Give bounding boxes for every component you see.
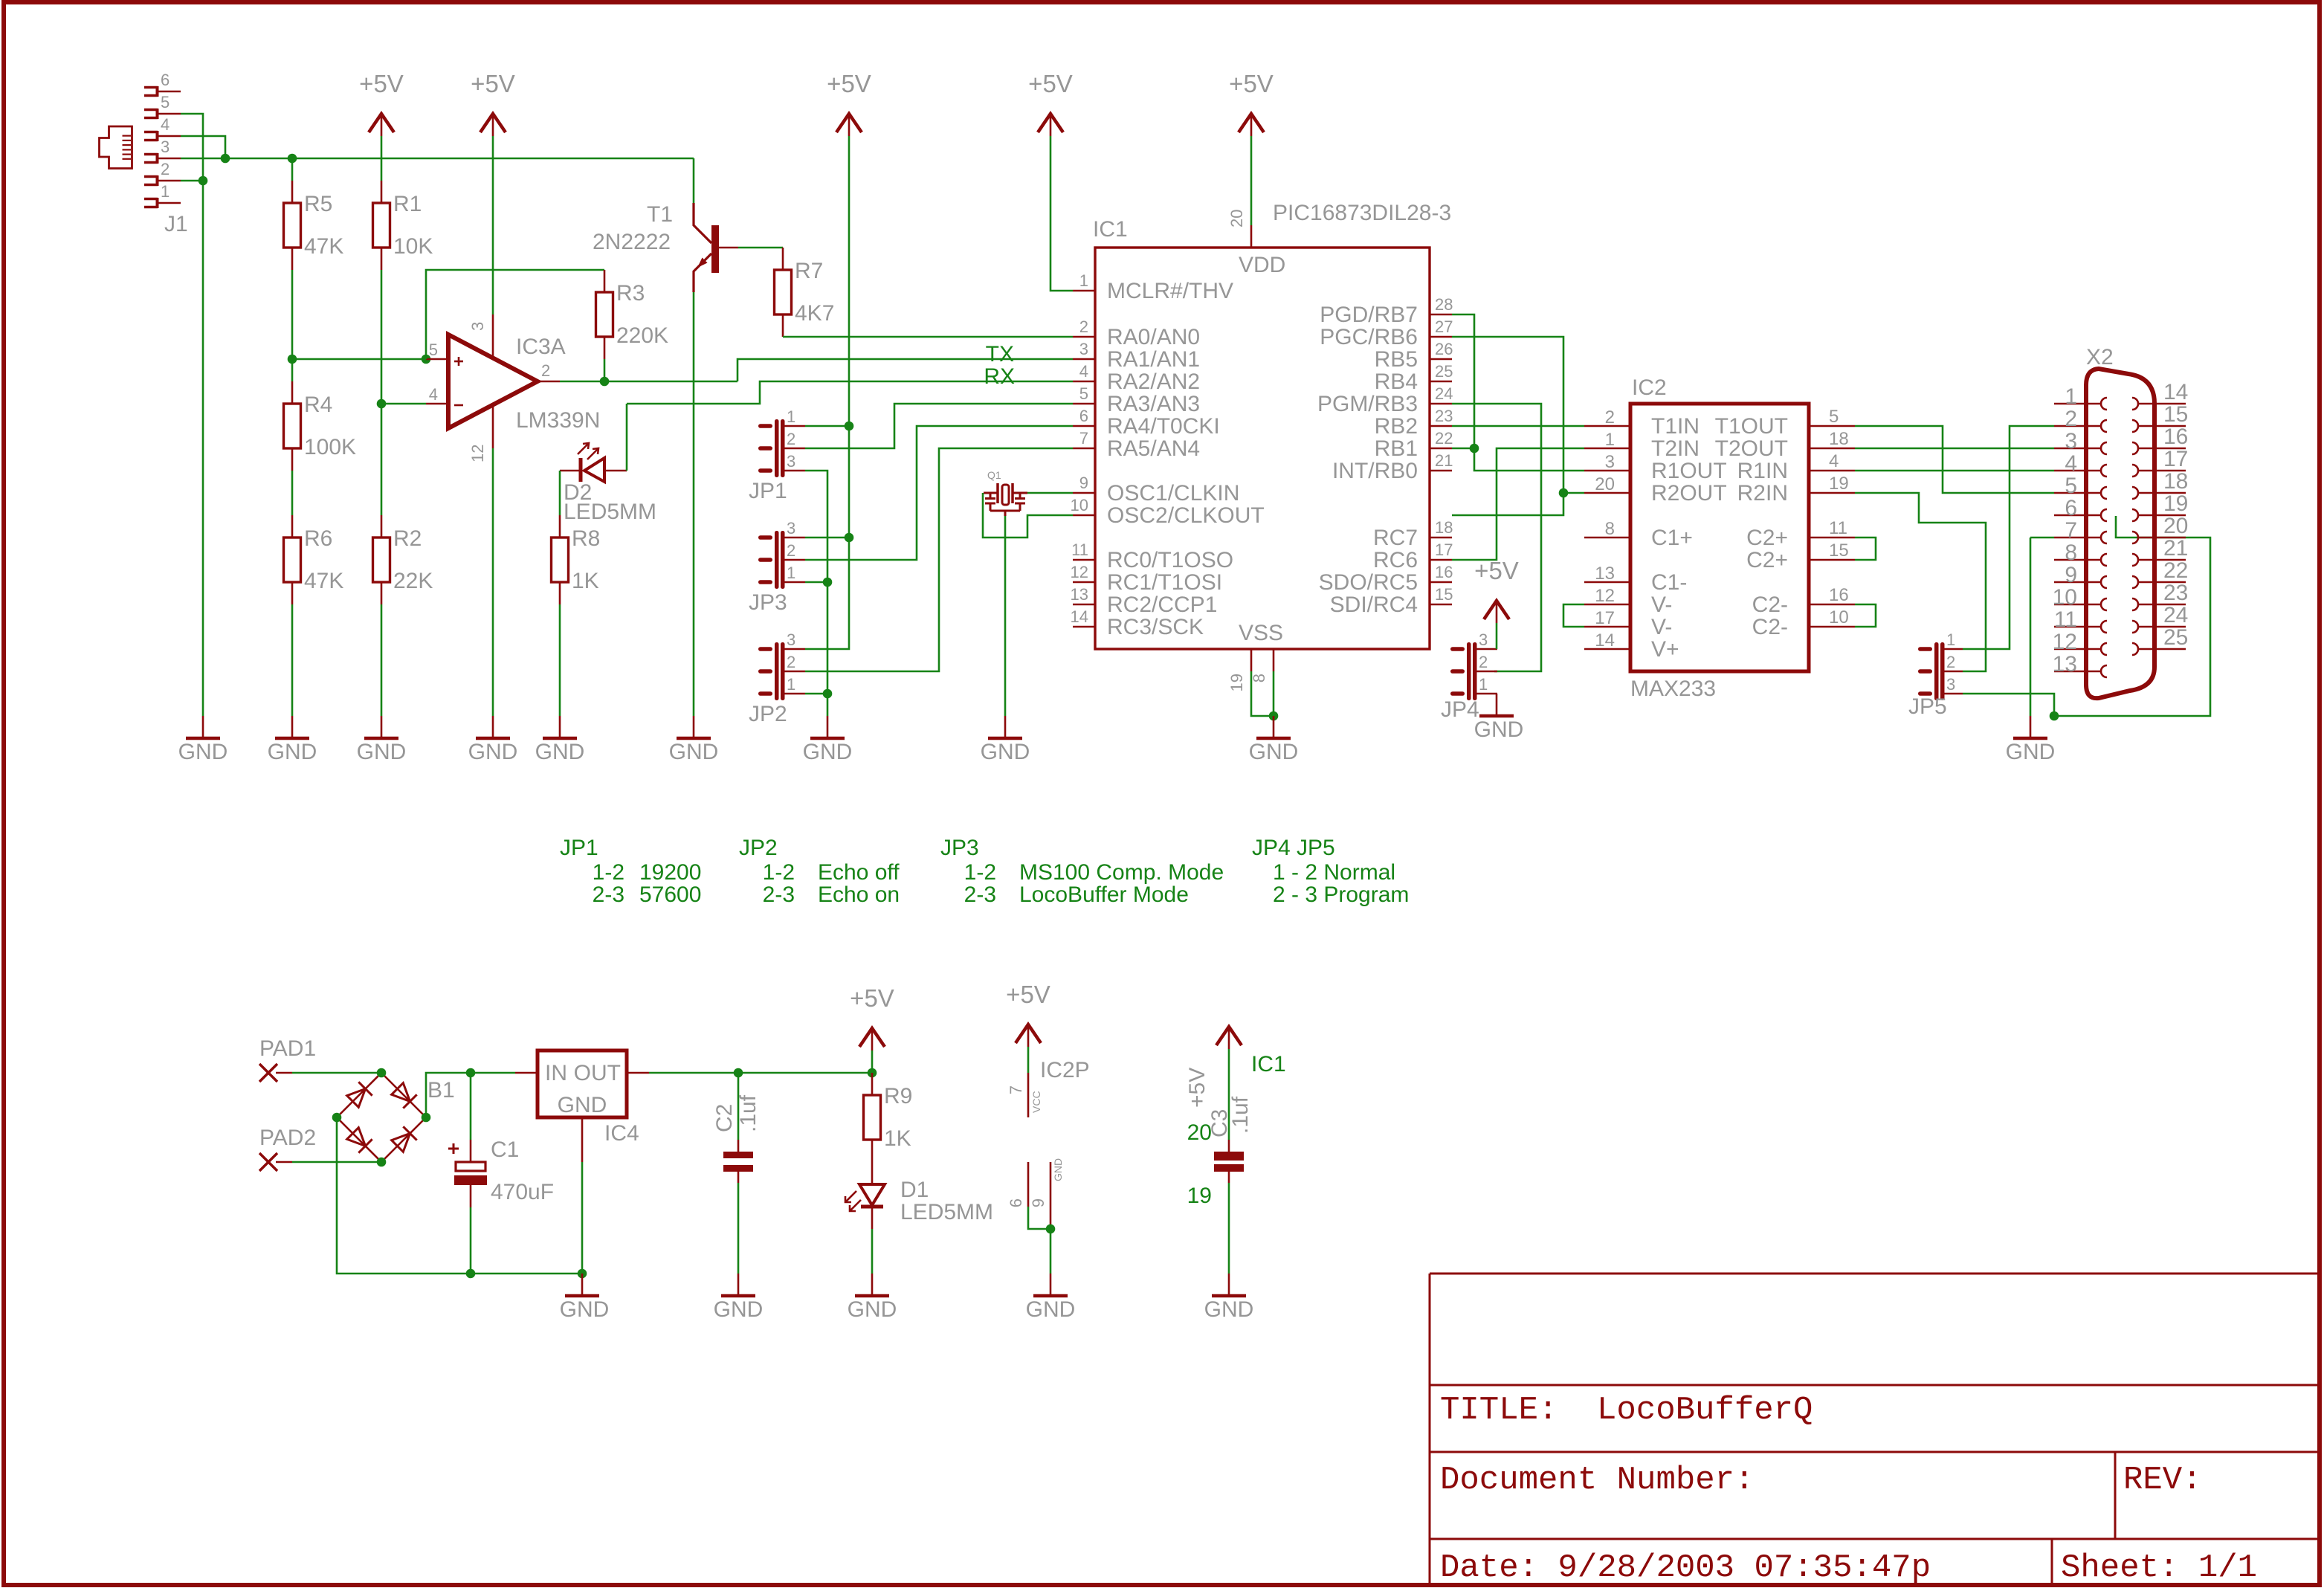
- ground symbol for J1 pin2 net: [202, 716, 204, 738]
- svg-text:1: 1: [1946, 630, 1955, 649]
- X2 pin 24: [2138, 626, 2186, 628]
- svg-text:2: 2: [1479, 653, 1488, 671]
- IC2 pin 11 C2+: [1809, 537, 1855, 539]
- J1 pin 4: [144, 131, 158, 134]
- X2 pin 14: [2138, 403, 2186, 405]
- wire JP3 pin2 to IC1 RA4: [805, 426, 1073, 560]
- svg-text:RA5/AN4: RA5/AN4: [1107, 436, 1200, 461]
- svg-text:GND: GND: [669, 740, 719, 764]
- svg-text:+5V: +5V: [1006, 981, 1050, 1008]
- resistor R9 1K: [864, 1095, 881, 1140]
- svg-text:28: 28: [1435, 295, 1453, 314]
- wire main LocoNet line J1 pin3 east: [181, 158, 694, 160]
- svg-text:2-3: 2-3: [593, 882, 624, 907]
- junction bridge AC2: [377, 1158, 387, 1167]
- svg-text:+5V: +5V: [850, 984, 894, 1012]
- svg-text:11: 11: [1829, 518, 1847, 538]
- wire crystal to OSC1: [1027, 492, 1073, 494]
- capacitor C3 .1uf: [1214, 1152, 1244, 1161]
- svg-text:+5V: +5V: [1474, 557, 1519, 584]
- IC1 pin 5 RA3/AN3: [1073, 403, 1095, 405]
- svg-text:8: 8: [1250, 674, 1268, 682]
- svg-text:25: 25: [1435, 362, 1453, 381]
- IC1 pin 13 RC2/CCP1: [1073, 604, 1095, 606]
- wire R3 bottom to output node: [604, 359, 606, 381]
- svg-text:+5V: +5V: [1185, 1068, 1210, 1108]
- svg-text:OUT: OUT: [574, 1061, 621, 1085]
- svg-text:24: 24: [2163, 603, 2188, 627]
- wire T2OUT to X2 pin3: [1855, 448, 2054, 450]
- X2 pin 8: [2054, 559, 2101, 561]
- IC3A pin 2 output: [538, 381, 560, 383]
- svg-text:21: 21: [2163, 536, 2188, 561]
- svg-text:GND: GND: [558, 1093, 607, 1117]
- svg-text:R1IN: R1IN: [1737, 459, 1788, 483]
- IC2P GND pin 6: [1027, 1162, 1030, 1207]
- svg-text:13: 13: [1071, 585, 1088, 604]
- X2 pin 2: [2054, 425, 2101, 427]
- svg-text:C2+: C2+: [1746, 526, 1788, 550]
- svg-text:J1: J1: [164, 212, 188, 236]
- wire R2OUT node to RC7: [1452, 493, 1563, 515]
- svg-text:PGM/RB3: PGM/RB3: [1317, 392, 1418, 416]
- svg-text:3: 3: [1479, 630, 1488, 649]
- svg-text:12: 12: [1071, 563, 1088, 581]
- wire PAD2 to bridge bottom: [292, 1161, 381, 1163]
- IC1 pin 7 RA5/AN4: [1073, 448, 1095, 450]
- svg-text:RA4/T0CKI: RA4/T0CKI: [1107, 414, 1220, 439]
- svg-text:JP2: JP2: [739, 836, 778, 860]
- svg-text:TITLE:: TITLE:: [1440, 1392, 1558, 1429]
- svg-text:26: 26: [1435, 340, 1453, 358]
- wire RB2 to T1IN: [1452, 425, 1584, 427]
- junction R9: [868, 1068, 877, 1078]
- svg-text:SDI/RC4: SDI/RC4: [1330, 593, 1418, 617]
- ground symbol below C3: [1228, 1274, 1230, 1296]
- wire +5V to R1 top: [381, 136, 383, 181]
- svg-text:RA0/AN0: RA0/AN0: [1107, 325, 1200, 349]
- svg-text:5: 5: [429, 340, 438, 359]
- svg-text:11: 11: [2054, 607, 2077, 632]
- svg-text:C2-: C2-: [1752, 615, 1788, 639]
- LED D1 LED5MM: [871, 1162, 874, 1184]
- svg-text:R2OUT: R2OUT: [1651, 481, 1727, 506]
- svg-text:GND: GND: [357, 740, 407, 764]
- junction J1 pin5/pin2: [198, 176, 208, 186]
- svg-text:VCC: VCC: [1030, 1091, 1042, 1113]
- X2 pin 21: [2138, 559, 2186, 561]
- wire JP2 pin1: [805, 693, 827, 695]
- wire VSS pin19 to ground: [1251, 671, 1274, 716]
- wire to C2: [737, 1073, 740, 1140]
- svg-text:GND: GND: [560, 1297, 610, 1322]
- ground symbol below Q1: [1004, 716, 1007, 738]
- IC2 pin 1 T2IN: [1584, 448, 1630, 450]
- X2 pin 23: [2138, 604, 2186, 606]
- X2 pin 11: [2054, 626, 2101, 628]
- connector X2 DB25 outline: [2086, 369, 2154, 698]
- junction +input: [422, 355, 431, 364]
- svg-text:MCLR#/THV: MCLR#/THV: [1107, 279, 1233, 303]
- junction JP2 pin1 on select-gnd column: [823, 689, 833, 699]
- wire IC2P gnd pins: [1028, 1207, 1050, 1229]
- svg-text:10: 10: [2053, 585, 2077, 610]
- IC2 pin 15 C2+: [1809, 559, 1855, 561]
- svg-text:47K: 47K: [304, 569, 343, 593]
- svg-text:RC7: RC7: [1373, 526, 1418, 550]
- svg-text:GND: GND: [1249, 740, 1299, 764]
- wire main net to R5: [291, 158, 294, 181]
- svg-text:470uF: 470uF: [491, 1180, 554, 1204]
- IC2P GND pin 9: [1050, 1162, 1052, 1229]
- wire R2 to ground: [381, 604, 383, 716]
- svg-text:18: 18: [2163, 469, 2188, 494]
- IC1 pin 18 RC7: [1430, 537, 1452, 539]
- svg-text:IN: IN: [545, 1061, 567, 1085]
- IC3A pin 3 V+: [492, 314, 494, 358]
- resistor R4 100K: [284, 404, 301, 448]
- IC1 pin 17 RC6: [1430, 559, 1452, 561]
- ground symbol below jumper select column: [827, 716, 829, 738]
- IC1 pin 8 VSS: [1273, 649, 1275, 671]
- svg-text:Echo on: Echo on: [818, 882, 900, 907]
- wire IC4 GND to rail: [581, 1162, 584, 1274]
- svg-text:X2: X2: [2086, 345, 2114, 369]
- svg-text:2: 2: [1079, 317, 1088, 336]
- IC2 pin 18 T2OUT: [1809, 448, 1855, 450]
- +5V supply symbol above R1: [369, 114, 394, 132]
- svg-text:GND: GND: [2006, 740, 2056, 764]
- IC1 pin 28 PGD/RB7: [1430, 314, 1452, 316]
- svg-text:20: 20: [2163, 514, 2188, 538]
- svg-text:LED5MM: LED5MM: [900, 1200, 993, 1224]
- resistor R6 47K: [284, 538, 301, 582]
- T1 emitter lead: [694, 254, 711, 292]
- svg-text:+5V: +5V: [1028, 70, 1073, 97]
- wire +5V to IC3A V+ pin3: [492, 136, 494, 314]
- IC IC2 MAX233 body: [1630, 404, 1809, 671]
- svg-text:IC2P: IC2P: [1040, 1058, 1090, 1082]
- svg-text:4: 4: [2065, 451, 2077, 476]
- junction J1 pin4 / main net: [221, 154, 230, 164]
- svg-text:MS100 Comp. Mode: MS100 Comp. Mode: [1019, 860, 1224, 885]
- svg-text:GND: GND: [1026, 1297, 1076, 1322]
- resistor R7 4K7: [775, 270, 792, 314]
- svg-text:10K: 10K: [393, 234, 433, 259]
- wire +5V to IC1 MCLR pin1: [1050, 136, 1073, 291]
- wire X2 pin7 ground column: [2030, 538, 2032, 716]
- svg-text:RC6: RC6: [1373, 548, 1418, 572]
- svg-text:V+: V+: [1651, 637, 1679, 662]
- title block frame: [1430, 1274, 2318, 1584]
- svg-text:1-2: 1-2: [964, 860, 996, 885]
- svg-text:6: 6: [1007, 1198, 1025, 1207]
- svg-text:16: 16: [1435, 563, 1453, 581]
- wire bridge minus to ground rail: [337, 1117, 582, 1274]
- svg-text:T1: T1: [647, 202, 673, 227]
- svg-text:PGC/RB6: PGC/RB6: [1320, 325, 1418, 349]
- svg-text:2: 2: [161, 160, 170, 178]
- wire D1 to ground: [871, 1229, 874, 1274]
- svg-text:GND: GND: [1052, 1158, 1064, 1181]
- svg-text:JP5: JP5: [1908, 694, 1947, 719]
- IC1 pin 24 PGM/RB3: [1430, 403, 1452, 405]
- connector J1 RJ12 jack symbol: [100, 126, 132, 169]
- svg-text:27: 27: [1435, 317, 1453, 336]
- svg-text:RC1/T1OSI: RC1/T1OSI: [1107, 570, 1222, 595]
- svg-text:PAD1: PAD1: [259, 1036, 316, 1061]
- svg-text:RC2/CCP1: RC2/CCP1: [1107, 593, 1217, 617]
- +5V supply symbol above JP4: [1484, 601, 1509, 619]
- svg-text:RA3/AN3: RA3/AN3: [1107, 392, 1200, 416]
- wire IC4 OUT +5V rail: [649, 1072, 872, 1074]
- wire JP5 pin3 to X2 pin6: [1963, 516, 2210, 716]
- IC1 pin 1 MCLR#/THV: [1073, 290, 1095, 292]
- J1 pin 1: [144, 198, 158, 201]
- X2 pin 19: [2138, 514, 2186, 517]
- ground symbol below R6: [291, 716, 294, 738]
- svg-text:RB5: RB5: [1375, 347, 1418, 372]
- X2 pin 17: [2138, 470, 2186, 472]
- junction R1/R2/IC3A -in: [377, 399, 387, 409]
- junction C1 top: [466, 1068, 476, 1078]
- svg-text:GND: GND: [714, 1297, 764, 1322]
- svg-text:2: 2: [541, 361, 550, 380]
- svg-text:7: 7: [2065, 518, 2077, 543]
- +5V supply symbol above IC3A: [480, 114, 506, 132]
- svg-text:14: 14: [1071, 607, 1088, 626]
- wire X2 pin7 ground: [2030, 537, 2054, 539]
- X2 pin 25: [2138, 648, 2186, 651]
- IC1 pin 6 RA4/T0CKI: [1073, 425, 1095, 427]
- IC2 pin 10 C2-: [1809, 626, 1855, 628]
- svg-text:9: 9: [2065, 563, 2077, 587]
- svg-text:PIC16873DIL28-3: PIC16873DIL28-3: [1273, 201, 1451, 225]
- junction JP5 pin3 net: [2050, 711, 2059, 721]
- svg-text:GND: GND: [981, 740, 1030, 764]
- svg-text:T2OUT: T2OUT: [1715, 436, 1788, 461]
- ground symbol below IC1 VSS: [1273, 716, 1275, 738]
- svg-text:PGD/RB7: PGD/RB7: [1320, 303, 1418, 327]
- svg-text:2 - 3 Program: 2 - 3 Program: [1273, 882, 1409, 907]
- svg-text:R2IN: R2IN: [1737, 481, 1788, 506]
- junction IC4 GND on ground rail: [578, 1269, 587, 1279]
- jumper header JP1: [775, 419, 779, 477]
- wire main net down to T1 collector: [693, 158, 695, 203]
- svg-text:Q1: Q1: [987, 469, 1001, 481]
- wire to +input: [292, 358, 426, 361]
- junction bridge plus: [422, 1113, 431, 1123]
- svg-text:IC1: IC1: [1251, 1052, 1286, 1077]
- svg-text:JP2: JP2: [749, 702, 787, 726]
- svg-text:7: 7: [1079, 429, 1088, 448]
- svg-text:1K: 1K: [884, 1126, 911, 1151]
- svg-text:Document Number:: Document Number:: [1440, 1462, 1754, 1499]
- wire R4 to R6: [291, 471, 294, 515]
- IC1 pin 12 RC1/T1OSI: [1073, 581, 1095, 584]
- svg-text:C1: C1: [491, 1137, 519, 1162]
- svg-text:3: 3: [1946, 675, 1955, 694]
- svg-text:JP3: JP3: [749, 590, 787, 615]
- svg-text:+5V: +5V: [827, 70, 871, 97]
- +5V supply symbol above C3: [1216, 1027, 1242, 1045]
- svg-text:R1: R1: [393, 192, 422, 216]
- svg-text:.1uf: .1uf: [736, 1094, 761, 1132]
- junction output / R3: [600, 377, 610, 387]
- wire D2 anode up to RX net: [626, 404, 628, 471]
- svg-text:19200: 19200: [639, 860, 701, 885]
- IC2 pin 5 T1OUT: [1809, 425, 1855, 427]
- wire JP5 pin1 to X2 pin2: [1963, 426, 2054, 649]
- svg-text:LM339N: LM339N: [516, 408, 600, 433]
- svg-text:GND: GND: [1204, 1297, 1254, 1322]
- svg-text:LocoBufferQ: LocoBufferQ: [1597, 1392, 1813, 1429]
- svg-text:4K7: 4K7: [795, 301, 834, 326]
- svg-text:5: 5: [1829, 407, 1839, 427]
- svg-text:GND: GND: [468, 740, 518, 764]
- svg-text:C1-: C1-: [1651, 570, 1687, 595]
- svg-text:4: 4: [1079, 362, 1088, 381]
- IC U1 PIC16873 body: [1095, 248, 1430, 649]
- svg-text:VDD: VDD: [1239, 253, 1285, 277]
- svg-text:IC3A: IC3A: [516, 335, 566, 359]
- svg-text:VSS: VSS: [1239, 621, 1283, 645]
- wire R1 to R2 threshold node: [381, 270, 383, 515]
- wire RX net to IC1 RA2: [627, 381, 1073, 404]
- svg-text:RB1: RB1: [1375, 436, 1418, 461]
- svg-text:V-: V-: [1651, 615, 1672, 639]
- X2 pin 7: [2054, 537, 2101, 539]
- +5V supply symbol above JP1 column: [836, 114, 862, 132]
- jumper configuration legend: [560, 836, 1409, 907]
- resistor R3 220K: [596, 292, 613, 337]
- IC4 GND pin: [581, 1117, 584, 1162]
- svg-text:2: 2: [787, 541, 795, 560]
- wire J1 pin4 down to main net: [181, 136, 225, 158]
- svg-text:2-3: 2-3: [964, 882, 996, 907]
- X2 pin 13: [2054, 671, 2101, 673]
- wire T1 base to R7: [738, 247, 783, 249]
- svg-text:22: 22: [1435, 429, 1453, 448]
- svg-text:6: 6: [161, 71, 170, 89]
- wire R5 to R4: [291, 270, 294, 381]
- wire +5V to IC2P VCC: [1027, 1047, 1030, 1073]
- svg-text:1: 1: [161, 182, 170, 201]
- wire IC2P to ground: [1050, 1229, 1052, 1274]
- svg-text:19: 19: [2163, 491, 2188, 516]
- pad PAD2: [259, 1153, 277, 1171]
- bridge rectifier B1: [337, 1073, 381, 1117]
- wire RB1 stub to column: [1452, 448, 1474, 450]
- svg-text:11: 11: [1071, 540, 1088, 559]
- svg-text:RX: RX: [984, 364, 1015, 389]
- svg-text:GND: GND: [178, 740, 228, 764]
- svg-text:R5: R5: [304, 192, 332, 216]
- wire +5V to C3: [1228, 1049, 1230, 1140]
- svg-text:14: 14: [1595, 630, 1615, 651]
- wire +5V column to JP1-1 JP3-3 JP2-3: [805, 136, 849, 649]
- IC4 voltage regulator: [538, 1050, 627, 1117]
- svg-text:RA1/AN1: RA1/AN1: [1107, 347, 1200, 372]
- IC2 pin 19 R2IN: [1809, 492, 1855, 494]
- X2 pin 4: [2054, 470, 2101, 472]
- wire into R2OUT: [1563, 492, 1584, 494]
- wire RB6 down to R2OUT: [1452, 337, 1563, 493]
- junction IC2P gnd pins: [1046, 1224, 1056, 1234]
- svg-text:1: 1: [1079, 271, 1088, 290]
- svg-text:V-: V-: [1651, 593, 1672, 617]
- svg-text:22: 22: [2163, 558, 2188, 583]
- svg-text:R8: R8: [572, 526, 600, 551]
- junction R5/R4/IC3A +in: [288, 355, 297, 364]
- svg-text:24: 24: [1435, 384, 1453, 403]
- X2 pin 22: [2138, 581, 2186, 584]
- svg-text:12: 12: [1595, 586, 1615, 606]
- svg-text:RC0/T1OSO: RC0/T1OSO: [1107, 548, 1233, 572]
- svg-text:12: 12: [2053, 630, 2077, 654]
- svg-text:.1uf: .1uf: [1228, 1096, 1253, 1134]
- IC2 pin 4 R1IN: [1809, 470, 1855, 472]
- svg-text:4: 4: [161, 115, 170, 134]
- svg-text:R7: R7: [795, 259, 823, 283]
- svg-text:15: 15: [1829, 540, 1849, 561]
- wire J1 pin2: [181, 180, 203, 182]
- +5V supply symbol above IC2P: [1016, 1024, 1041, 1043]
- junction JP3 pin3 on +5V column: [845, 533, 854, 543]
- svg-text:R3: R3: [616, 281, 645, 306]
- wire JP1 pin2 to IC1 RA3: [805, 404, 1073, 448]
- svg-text:2-3: 2-3: [763, 882, 795, 907]
- svg-text:GND: GND: [1474, 717, 1524, 742]
- ground symbol below C2: [737, 1274, 740, 1296]
- svg-text:RB2: RB2: [1375, 414, 1418, 439]
- svg-text:RB4: RB4: [1375, 369, 1418, 394]
- svg-text:19: 19: [1227, 674, 1246, 691]
- wire +5V to IC1 VDD pin20: [1250, 136, 1253, 225]
- svg-text:3: 3: [1605, 452, 1615, 472]
- svg-text:RA2/AN2: RA2/AN2: [1107, 369, 1200, 394]
- svg-text:57600: 57600: [639, 882, 701, 907]
- wire JP3 pin1: [805, 581, 827, 584]
- wire PAD1 to bridge top: [292, 1072, 381, 1074]
- IC2 pin 17 V-: [1584, 626, 1630, 628]
- svg-text:220K: 220K: [616, 323, 668, 348]
- wire TX net to IC1 RA1: [737, 359, 1073, 381]
- transistor T1 2N2222 NPN: [711, 225, 719, 273]
- IC1 pin 4 RA2/AN2: [1073, 381, 1095, 383]
- wire JP1 pin3 select-gnd column: [805, 471, 827, 716]
- wire R6 to ground: [291, 604, 294, 716]
- resistor R5 47K: [284, 203, 301, 248]
- jumper header JP3: [775, 531, 779, 589]
- svg-text:C1+: C1+: [1651, 526, 1693, 550]
- svg-text:7: 7: [1007, 1085, 1025, 1094]
- wire PGM/RB3 to JP4 pin2: [1452, 404, 1541, 671]
- svg-text:1K: 1K: [572, 569, 599, 593]
- junction C1 on ground rail: [466, 1269, 476, 1279]
- svg-text:17: 17: [2163, 447, 2188, 471]
- svg-text:JP1: JP1: [560, 836, 598, 860]
- junction VSS pins: [1269, 711, 1279, 721]
- IC2P VCC pin 7: [1027, 1073, 1030, 1117]
- junction R5 / main net: [288, 154, 297, 164]
- LED D2 LED5MM: [560, 470, 581, 472]
- svg-text:13: 13: [1595, 564, 1615, 584]
- svg-text:MAX233: MAX233: [1630, 677, 1716, 701]
- wire +5V to R9 node: [871, 1050, 874, 1073]
- wire C2 to ground: [737, 1183, 740, 1274]
- X2 pin 3: [2054, 448, 2101, 450]
